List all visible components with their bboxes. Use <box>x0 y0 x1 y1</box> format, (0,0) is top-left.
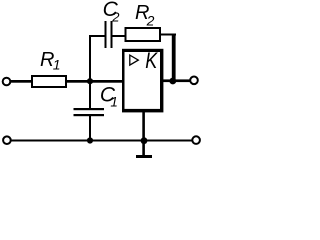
wire top rail to C2 left plate <box>89 35 106 37</box>
feedback vertical wire <box>172 34 176 82</box>
op-amp ground lead <box>142 112 145 155</box>
svg-text:2: 2 <box>111 10 120 25</box>
output wire from op-amp <box>163 79 190 82</box>
label K <box>145 50 158 74</box>
wire C2 to R2 <box>113 35 126 37</box>
resistor R1 <box>32 76 66 87</box>
input terminal (top-left) <box>3 78 11 86</box>
ground <box>136 155 152 158</box>
node A junction dot <box>87 78 93 84</box>
svg-text:2: 2 <box>146 12 155 28</box>
label R2 <box>135 2 155 28</box>
wire C1 to bottom rail <box>89 116 91 141</box>
op-amp U1 box <box>122 49 163 113</box>
resistor R2 <box>126 28 161 41</box>
svg-text:1: 1 <box>53 56 61 72</box>
label C2 <box>103 0 121 25</box>
node D bottom junction of amplifier <box>141 137 148 144</box>
node C bottom junction of C1 <box>87 137 93 143</box>
wire R2 to feedback drop <box>161 34 176 36</box>
wire R1 to amplifier input <box>67 80 123 83</box>
bottom rail wire <box>11 140 193 142</box>
capacitor C1 <box>74 108 105 116</box>
output terminal (right) <box>190 77 198 85</box>
bottom-left terminal <box>3 136 11 144</box>
label C1 <box>100 83 118 109</box>
node B output junction dot <box>169 78 176 85</box>
wire input terminal to R1 <box>10 80 31 83</box>
op-amp triangle symbol <box>130 55 139 65</box>
capacitor C2 <box>105 21 113 48</box>
svg-text:K: K <box>145 50 158 74</box>
svg-text:1: 1 <box>110 94 118 109</box>
label R1 <box>40 49 61 72</box>
wire node A down to C1 <box>89 82 91 108</box>
wire node A up to top rail <box>89 36 91 81</box>
bottom-right terminal <box>192 136 200 144</box>
